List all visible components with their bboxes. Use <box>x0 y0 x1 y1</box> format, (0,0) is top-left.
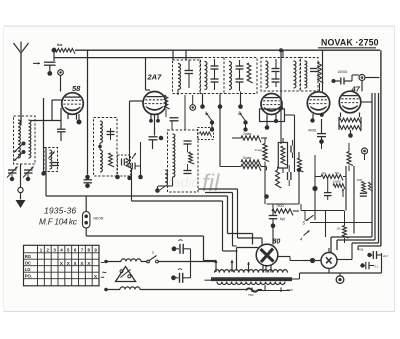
svg-text:2mf: 2mf <box>383 254 388 258</box>
svg-text:~: ~ <box>102 268 107 277</box>
svg-text:8μf: 8μf <box>280 217 285 221</box>
svg-text:1935-36: 1935-36 <box>44 206 76 216</box>
svg-text:OC: OC <box>25 261 31 266</box>
svg-text:100t: 100t <box>357 178 363 182</box>
svg-text:0,1: 0,1 <box>375 265 379 269</box>
svg-text:47: 47 <box>351 85 361 94</box>
svg-text:58: 58 <box>72 84 81 93</box>
svg-text:fus: fus <box>57 43 62 47</box>
svg-text:10t: 10t <box>337 227 341 231</box>
svg-text:400t: 400t <box>358 248 364 252</box>
svg-text:s: s <box>152 250 154 255</box>
svg-text:M.F 104 kc: M.F 104 kc <box>39 218 77 227</box>
svg-text:500t: 500t <box>287 288 293 292</box>
svg-text:NEON: NEON <box>94 217 104 221</box>
svg-text:LG: LG <box>25 267 32 272</box>
svg-text:2A7: 2A7 <box>147 73 163 82</box>
svg-text:NOVAK ·2750: NOVAK ·2750 <box>321 38 379 48</box>
svg-text:750t: 750t <box>248 293 254 297</box>
svg-text:400Ω: 400Ω <box>308 129 317 133</box>
svg-text:PO.: PO. <box>25 274 32 279</box>
svg-text:50t: 50t <box>335 171 339 175</box>
svg-text:1000Ω: 1000Ω <box>338 70 348 74</box>
svg-text:RG: RG <box>25 254 32 259</box>
svg-text:10000: 10000 <box>333 179 341 183</box>
svg-text:1meg: 1meg <box>255 148 263 152</box>
svg-text:80: 80 <box>273 239 281 246</box>
